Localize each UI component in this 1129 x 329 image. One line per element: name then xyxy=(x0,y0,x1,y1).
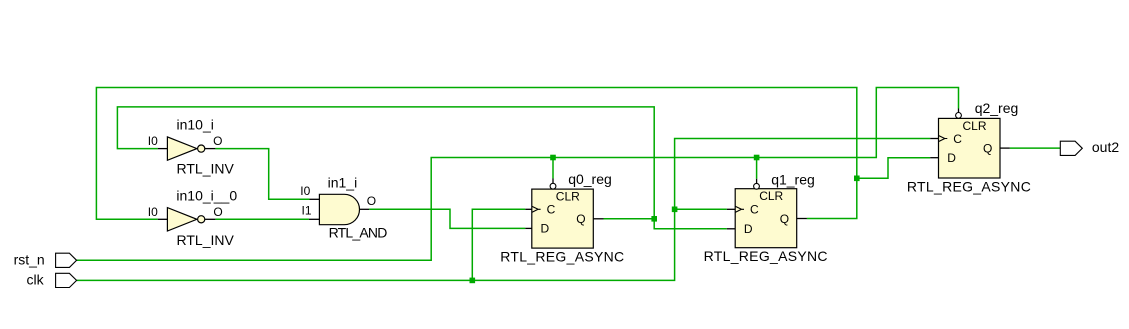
svg-text:in10_i__0: in10_i__0 xyxy=(176,187,237,203)
svg-text:O: O xyxy=(367,194,376,208)
svg-text:RTL_REG_ASYNC: RTL_REG_ASYNC xyxy=(500,249,624,265)
svg-text:q1_reg: q1_reg xyxy=(771,171,815,187)
svg-text:rst_n: rst_n xyxy=(14,252,45,268)
svg-text:Q: Q xyxy=(576,212,585,226)
svg-text:D: D xyxy=(744,222,753,236)
svg-text:O: O xyxy=(213,205,222,219)
svg-text:I0: I0 xyxy=(148,134,158,148)
svg-text:CLR: CLR xyxy=(759,189,783,203)
svg-text:C: C xyxy=(547,203,556,217)
svg-text:O: O xyxy=(213,134,222,148)
svg-text:Q: Q xyxy=(780,212,789,226)
svg-text:Q: Q xyxy=(983,141,992,155)
svg-text:I0: I0 xyxy=(300,184,310,198)
svg-text:CLR: CLR xyxy=(556,190,580,204)
svg-text:C: C xyxy=(953,132,962,146)
svg-text:q2_reg: q2_reg xyxy=(975,100,1019,116)
svg-text:C: C xyxy=(750,203,759,217)
svg-text:CLR: CLR xyxy=(963,119,987,133)
svg-text:I0: I0 xyxy=(148,205,158,219)
svg-text:D: D xyxy=(541,222,550,236)
svg-text:RTL_REG_ASYNC: RTL_REG_ASYNC xyxy=(907,179,1031,195)
svg-text:RTL_REG_ASYNC: RTL_REG_ASYNC xyxy=(704,248,828,264)
svg-text:q0_reg: q0_reg xyxy=(568,171,612,187)
svg-text:RTL_INV: RTL_INV xyxy=(177,160,235,176)
svg-text:out2: out2 xyxy=(1092,139,1119,155)
svg-text:clk: clk xyxy=(27,272,45,288)
svg-text:in10_i: in10_i xyxy=(177,116,214,132)
svg-text:I1: I1 xyxy=(302,203,312,217)
svg-text:RTL_INV: RTL_INV xyxy=(177,232,235,248)
svg-text:RTL_AND: RTL_AND xyxy=(329,225,388,241)
svg-text:in1_i: in1_i xyxy=(328,175,358,191)
svg-text:D: D xyxy=(947,151,956,165)
